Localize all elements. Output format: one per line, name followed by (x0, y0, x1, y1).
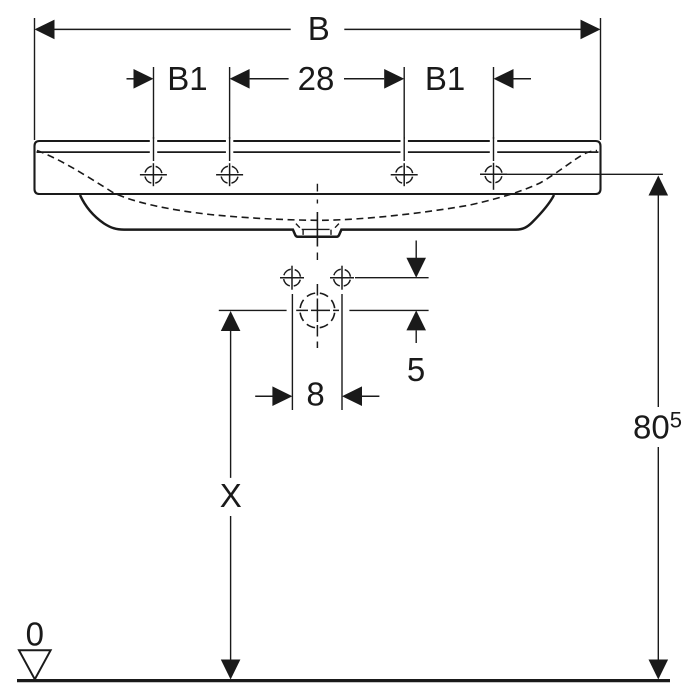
dimension X up arrow (221, 311, 241, 331)
dimension X line lower (230, 516, 232, 660)
washbasin deck inner edge line (37, 151, 599, 153)
B1 left outer stem (127, 78, 135, 80)
basin interior dashed curve (37, 151, 597, 221)
dimension 8 right stem (362, 395, 379, 397)
drain centerline dash below outlet (316, 253, 318, 261)
wall fixing hole right (330, 266, 354, 290)
dimension B arrow right (581, 20, 601, 40)
bowl exterior outline (80, 195, 554, 237)
drain level reference line right (349, 309, 428, 311)
B1 left arrow (134, 69, 154, 89)
dimension B1 right extension line (493, 67, 495, 161)
zero level triangle (19, 650, 51, 679)
drain hole crosshair horizontal (296, 309, 339, 311)
dimension 80-5 line upper (657, 196, 659, 408)
B1 right outer stem (514, 78, 532, 80)
rim tap hole 1 (140, 163, 167, 186)
dimension 28/B1 extension line (403, 67, 405, 161)
dimension 8 right arrow (342, 386, 362, 406)
washbasin rim outline (35, 141, 601, 194)
dashed drain funnel marks (296, 224, 339, 228)
dimension 8 left arrow (272, 386, 292, 406)
rim tap hole 4 (480, 163, 507, 190)
dimension 5 down arrow (406, 258, 426, 278)
svg-text:B1: B1 (167, 60, 207, 97)
dimension B extension line left (34, 18, 36, 140)
dimension 5 upper stem (415, 241, 417, 259)
svg-text:5: 5 (407, 351, 425, 388)
drain recess inner detail (302, 229, 331, 235)
dimension B line right segment (344, 28, 581, 30)
dimension 80-5 down arrow (649, 660, 669, 680)
svg-text:B: B (308, 10, 330, 47)
28 right stem (344, 78, 384, 80)
drain level reference line left (219, 309, 287, 311)
drain hole crosshair vertical (316, 284, 318, 348)
dimension 8 right extension line (341, 294, 343, 410)
leader line from hole 4 to height dimension (507, 173, 663, 175)
rim tap hole 3 (391, 163, 418, 186)
dimension B line left segment (54, 28, 291, 30)
leader from right fixing hole to 5 dimension (355, 277, 429, 279)
dimension B1/28 extension line (229, 67, 231, 161)
dimension B arrow left (35, 20, 55, 40)
svg-text:X: X (220, 477, 242, 514)
svg-text:8: 8 (306, 376, 324, 413)
dimension 80-5 line lower (657, 447, 659, 660)
wall fixing hole left (280, 266, 304, 290)
28 right arrow (384, 69, 404, 89)
dimension B extension line right (600, 18, 602, 140)
svg-text:28: 28 (298, 60, 335, 97)
dimension X line upper (230, 331, 232, 478)
dimension 8 left stem (255, 395, 273, 397)
drain centerline dashes above (316, 184, 318, 204)
re-draw extension line stubs through rim gaps (154, 137, 494, 161)
dimension X down arrow (221, 660, 241, 680)
drain hole dashed circle (300, 293, 335, 328)
dimension 80-5 up arrow (649, 176, 669, 196)
svg-text:B1: B1 (425, 60, 465, 97)
dimension 8 left extension line (291, 294, 293, 410)
28 left stem (250, 78, 289, 80)
dimension 5 up arrow (406, 310, 426, 330)
floor line (17, 679, 670, 682)
svg-text:0: 0 (26, 616, 44, 653)
rim tap hole 2 (216, 163, 243, 186)
dimension B1 left extension line (153, 67, 155, 161)
28 left arrow (230, 69, 250, 89)
gaps where extension lines cross rim lines (150, 139, 497, 155)
B1 right arrow (494, 69, 514, 89)
dimension 5 lower stem (415, 330, 417, 343)
drain centerline solid through outlet (316, 212, 318, 247)
